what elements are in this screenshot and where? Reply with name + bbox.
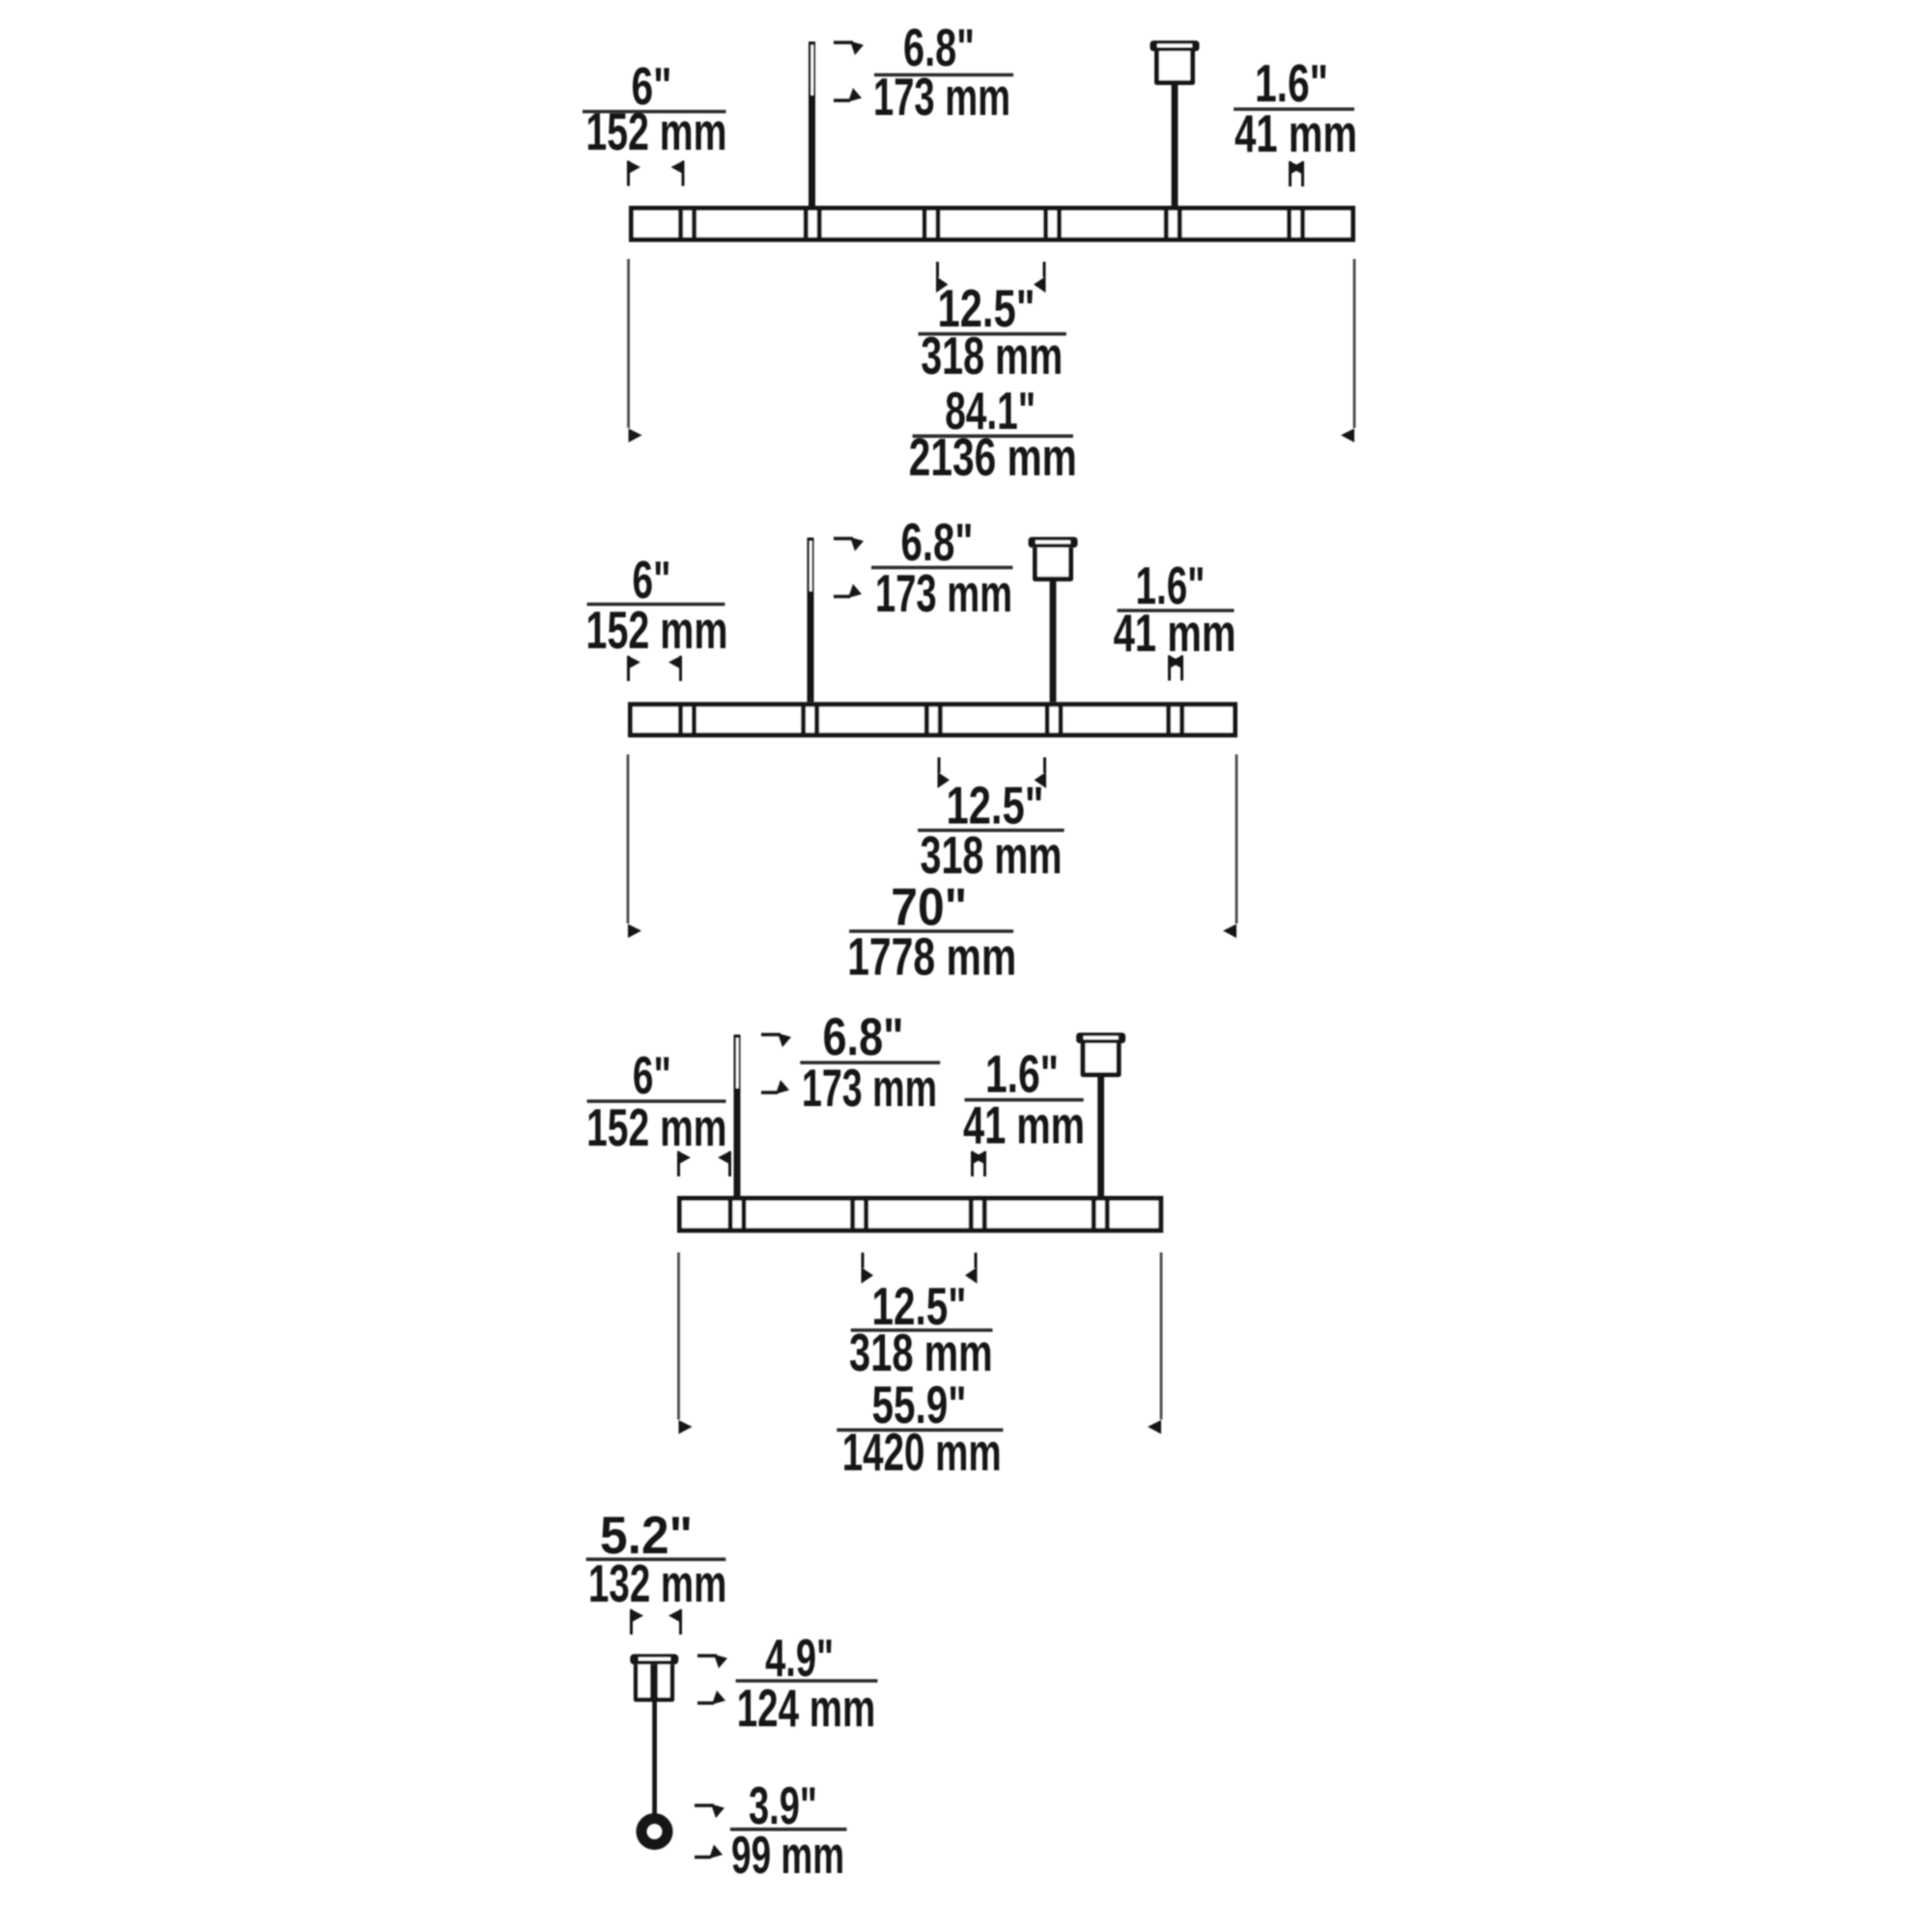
dimension label F2 stem height: 6.8&#34; / 173 mm [875, 512, 1012, 623]
leader arrow F3 stem top (down) [761, 1033, 781, 1036]
svg-text:152 mm: 152 mm [586, 600, 728, 660]
fixture 1 segment divider 3 [923, 208, 927, 240]
fixture 1 segment divider 2 [804, 208, 809, 240]
dimension label F2 end spacing: 6&#34; / 152 mm [586, 550, 728, 660]
fixture 3 segment divider 4 [1092, 1198, 1096, 1231]
fixture 2 segment divider 3 [924, 704, 929, 735]
dimension label F3 joint width: 1.6&#34; / 41 mm [963, 1044, 1085, 1155]
leader arrow detail canopy bottom (up) [697, 1701, 714, 1704]
fixture 3 segment divider 2 [850, 1198, 855, 1231]
fixture 1 segment divider 5 [1164, 208, 1169, 240]
svg-text:1778 mm: 1778 mm [847, 926, 1016, 986]
leader arrow F1 stem top (down) [834, 41, 853, 43]
fixture 3 segment divider 3 [969, 1198, 974, 1231]
fixture 3 ceiling canopy [1076, 1033, 1125, 1196]
leader arrow F3 stem bottom (up) [761, 1091, 778, 1094]
dimension arrows F3 12.5in (below-bar pair) [862, 1253, 978, 1284]
fixture 2 suspension stem (thin rod) [808, 538, 814, 702]
dimension arrows F1 1.6in (inward pair) [1289, 161, 1304, 187]
dimension label detail canopy height: 4.9&#34; / 124 mm [737, 1628, 876, 1738]
fraction line for F2 stem height [871, 566, 1012, 570]
fraction line for F3 overall length [837, 1429, 1003, 1433]
dimension arrows F1 6in (inward pair) [627, 160, 685, 186]
fixture 2 segment divider 2 [801, 704, 806, 735]
extension line F1 right overall [1353, 259, 1356, 428]
dimension label F2 overall length: 70&#34; / 1778 mm [847, 876, 1016, 986]
dimension arrows F2 12.5in (below-bar pair) [938, 757, 1047, 788]
fixture 2 segment divider 1 [678, 704, 683, 735]
dimension label F1 overall length: 84.1&#34; / 2136 mm [909, 381, 1077, 487]
detail aircraft cable [652, 1700, 657, 1818]
extension line F2 right overall [1236, 754, 1238, 923]
fraction line for F2 joint width [1118, 609, 1235, 612]
detail cable loop [641, 1819, 668, 1845]
fixture 1 segment divider 4 [1043, 208, 1048, 240]
dimension arrows F3 6in (inward pair) [677, 1151, 731, 1177]
fixture 1 segment divider 1 [678, 208, 683, 240]
fraction line for F3 end spacing [587, 1099, 726, 1103]
fixture 2 segment divider 5 [1166, 704, 1171, 735]
detail canopy body [636, 1664, 672, 1699]
fraction line for F3 stem height [800, 1061, 940, 1065]
fraction line for detail canopy height [736, 1679, 878, 1683]
svg-text:152 mm: 152 mm [586, 1097, 726, 1157]
fixture 3 suspension stem (thin rod) [734, 1035, 741, 1196]
dimension arrows F2 1.6in (inward pair) [1168, 655, 1183, 681]
extension line F2 left overall [627, 754, 630, 923]
dimension arrows F2 6in (inward pair) [627, 656, 682, 682]
fixture 1 body (linear bar) [632, 209, 1353, 241]
extension line F1 left overall [627, 259, 630, 428]
dimension label F3 end spacing: 6&#34; / 152 mm [586, 1045, 726, 1157]
svg-text:173 mm: 173 mm [875, 563, 1012, 623]
leader arrow F2 stem bottom (up) [834, 595, 850, 598]
fixture 2 body (linear bar) [631, 704, 1236, 735]
fraction line for F1 end spacing [582, 110, 726, 114]
svg-text:41 mm: 41 mm [1235, 103, 1357, 163]
fixture 2 ceiling canopy [1029, 537, 1078, 702]
dimension label detail canopy width: 5.2&#34; / 132 mm [588, 1505, 726, 1613]
dimension arrows detail 5.2in (inward pair) [630, 1609, 682, 1635]
leader arrow F2 stem top (down) [834, 537, 853, 540]
fraction line for detail canopy width [586, 1557, 726, 1561]
dimension label F3 overall length: 55.9&#34; / 1420 mm [842, 1375, 1002, 1482]
fraction line for detail loop drop [730, 1828, 847, 1832]
svg-text:124 mm: 124 mm [737, 1678, 876, 1738]
leader arrow detail loop top (down) [695, 1804, 714, 1806]
dimension label F3 segment length: 12.5&#34; / 318 mm [849, 1276, 993, 1382]
fraction line for F3 segment length [851, 1328, 993, 1332]
fraction line for F2 segment length [918, 829, 1065, 833]
fraction line for F1 segment length [919, 332, 1066, 336]
svg-text:99 mm: 99 mm [731, 1825, 844, 1885]
dimension label F3 stem height: 6.8&#34; / 173 mm [802, 1007, 937, 1118]
fixture 3 segment divider 1 [728, 1198, 733, 1231]
dimension arrows F3 1.6in (inward pair) [971, 1151, 986, 1177]
extension line F3 left overall [677, 1253, 680, 1420]
fraction line for F2 overall length [849, 929, 1013, 933]
detail canopy center post [650, 1664, 658, 1699]
fraction line for F1 joint width [1234, 107, 1354, 111]
svg-text:173 mm: 173 mm [802, 1058, 937, 1118]
dimension label F1 joint width: 1.6&#34; / 41 mm [1235, 53, 1357, 163]
leader arrow F1 stem bottom (up) [834, 99, 850, 101]
dimension label F1 end spacing: 6&#34; / 152 mm [586, 56, 727, 161]
fraction line for F1 overall length [913, 435, 1073, 439]
dimension label F2 segment length: 12.5&#34; / 318 mm [921, 776, 1063, 886]
svg-text:6": 6" [633, 1045, 671, 1105]
dimension label F1 stem height: 6.8&#34; / 173 mm [873, 17, 1010, 127]
svg-text:132 mm: 132 mm [588, 1553, 726, 1613]
fraction line for F2 end spacing [587, 603, 725, 607]
fixture 1 suspension stem (thin rod) [809, 42, 815, 206]
svg-text:41 mm: 41 mm [963, 1095, 1085, 1155]
dimension label detail loop drop: 3.9&#34; / 99 mm [731, 1776, 844, 1885]
dimension label F1 segment length: 12.5&#34; / 318 mm [921, 278, 1063, 385]
detail canopy flange [630, 1654, 678, 1664]
leader arrow detail canopy top (down) [697, 1654, 717, 1657]
fixture 1 segment divider 6 [1287, 208, 1292, 240]
fixture 2 segment divider 4 [1045, 704, 1050, 735]
fraction line for F1 stem height [874, 73, 1013, 77]
fixture 3 body (linear bar) [680, 1199, 1161, 1231]
fraction line for F3 joint width [965, 1098, 1084, 1102]
leader arrow detail loop bottom (up) [695, 1856, 711, 1859]
dimension arrows F1 12.5in (below-bar pair) [936, 262, 1046, 293]
dimension label F2 joint width: 1.6&#34; / 41 mm [1114, 555, 1236, 663]
fixture 1 ceiling canopy [1151, 41, 1200, 206]
extension line F3 right overall [1160, 1253, 1163, 1420]
